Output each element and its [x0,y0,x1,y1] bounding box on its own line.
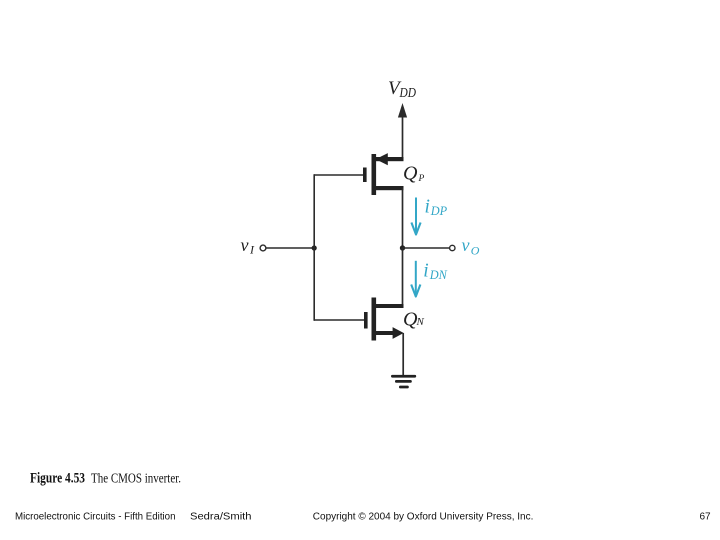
terminal vO open circle [450,245,455,250]
svg-text:N: N [416,316,425,328]
svg-text:v: v [462,235,470,255]
svg-text:i: i [425,197,430,218]
label QP [403,163,425,185]
label vI [241,235,256,257]
svg-text:i: i [423,261,428,282]
node input junction dot [312,245,317,250]
current arrow iDN [411,261,420,297]
wire output node to QN drain [402,248,404,306]
svg-text:DP: DP [430,204,448,218]
wire QP gate lead [314,174,363,176]
caption figure title [30,471,181,487]
transistor QN source arrowhead [393,327,404,339]
label iDP [425,197,448,218]
current arrow iDP [411,198,420,235]
svg-text:P: P [418,174,425,184]
transistor QN drain bar [376,304,404,308]
transistor QP source arrowhead [376,153,388,165]
wire input lead [266,247,314,249]
transistor QP drain bar [376,186,404,190]
wire gate bus vertical [313,174,315,321]
transistor QN channel bar [372,298,377,341]
svg-text:The CMOS inverter.: The CMOS inverter. [91,472,181,487]
transistor QP gate bar [363,168,367,183]
svg-text:Sedra/Smith: Sedra/Smith [190,512,252,523]
label QN [403,309,425,331]
svg-text:Figure 4.53: Figure 4.53 [30,471,85,487]
transistor QP channel bar [372,154,377,195]
VDD arrowhead [398,103,407,118]
wire QN source to ground [402,333,404,376]
transistor QN gate bar [364,312,368,329]
svg-text:O: O [471,244,480,258]
transistor QP source bar [376,157,404,161]
svg-text:Copyright © 2004 by Oxford Uni: Copyright © 2004 by Oxford University Pr… [313,512,534,523]
terminal vI open circle [260,245,266,251]
svg-text:Microelectronic Circuits - Fif: Microelectronic Circuits - Fifth Edition [15,512,176,523]
wire output [403,247,450,249]
wire QN gate lead [314,319,364,321]
label vO [462,235,480,258]
svg-text:DN: DN [429,268,448,282]
wire QP drain to output node [402,188,404,248]
svg-text:Q: Q [403,163,418,185]
wire VDD supply lead [402,112,404,159]
ground [391,375,416,389]
node output junction dot [400,245,405,250]
transistor QN source bar [376,331,394,335]
label iDN [423,261,447,282]
node VDD label [388,78,416,100]
svg-text:v: v [241,235,249,255]
svg-text:DD: DD [399,85,417,100]
svg-text:67: 67 [700,512,712,523]
